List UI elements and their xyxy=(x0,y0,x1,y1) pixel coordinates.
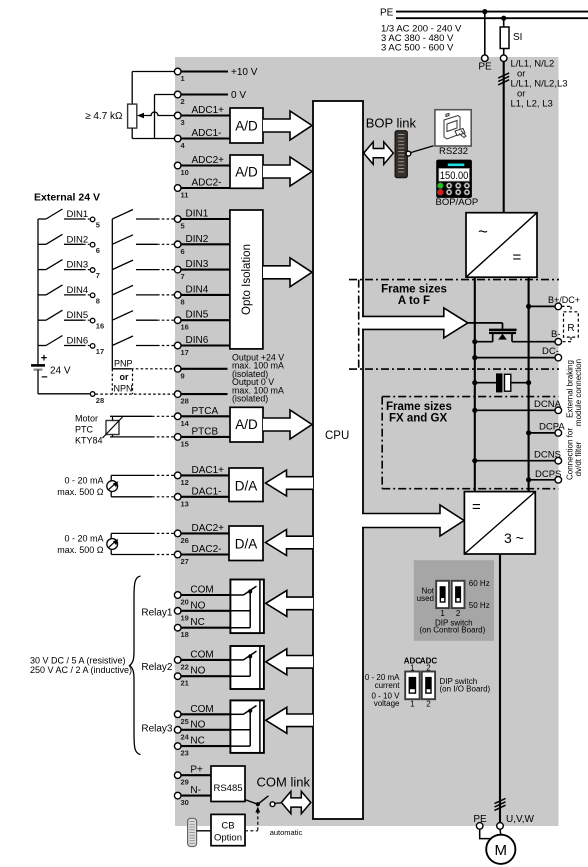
svg-text:7: 7 xyxy=(96,271,100,280)
svg-text:(on I/O Board): (on I/O Board) xyxy=(440,685,491,694)
svg-text:DAC1-: DAC1- xyxy=(192,486,222,497)
svg-text:3 ~: 3 ~ xyxy=(504,530,524,546)
svg-text:max. 500 Ω: max. 500 Ω xyxy=(57,545,104,555)
svg-text:0 V: 0 V xyxy=(231,90,246,101)
svg-text:30 V DC / 5 A (resistive): 30 V DC / 5 A (resistive) xyxy=(30,656,126,666)
svg-text:8: 8 xyxy=(96,296,100,305)
svg-text:28: 28 xyxy=(181,397,189,406)
svg-text:DAC1+: DAC1+ xyxy=(192,465,225,476)
svg-text:12: 12 xyxy=(181,478,189,487)
svg-text:PNP: PNP xyxy=(114,359,133,369)
svg-text:A/D: A/D xyxy=(235,119,258,134)
svg-text:NO: NO xyxy=(190,666,205,677)
svg-text:DIN5: DIN5 xyxy=(186,310,209,321)
svg-text:DCNS: DCNS xyxy=(534,449,561,460)
svg-text:0 - 20 mA: 0 - 20 mA xyxy=(64,476,103,486)
svg-text:PTCA: PTCA xyxy=(192,406,219,417)
svg-text:19: 19 xyxy=(181,613,189,622)
svg-text:NO: NO xyxy=(190,600,205,611)
svg-text:DCNA: DCNA xyxy=(534,399,562,410)
svg-text:Motor: Motor xyxy=(75,414,98,424)
svg-text:14: 14 xyxy=(181,419,190,428)
svg-text:(on Control Board): (on Control Board) xyxy=(419,626,485,635)
svg-text:17: 17 xyxy=(181,348,189,357)
svg-text:COM: COM xyxy=(190,649,213,660)
svg-text:29: 29 xyxy=(181,778,189,787)
svg-text:B+/DC+: B+/DC+ xyxy=(548,295,580,305)
svg-text:Relay2: Relay2 xyxy=(141,662,173,673)
svg-text:BOP/AOP: BOP/AOP xyxy=(436,197,479,208)
svg-text:A/D: A/D xyxy=(235,165,258,180)
svg-text:10: 10 xyxy=(181,168,189,177)
svg-text:RS485: RS485 xyxy=(213,783,242,794)
svg-text:PE: PE xyxy=(473,814,487,825)
svg-text:PE: PE xyxy=(478,62,492,73)
svg-text:5: 5 xyxy=(181,222,185,231)
svg-text:24: 24 xyxy=(181,732,190,741)
svg-text:ADC1-: ADC1- xyxy=(192,128,222,139)
svg-text:RS232: RS232 xyxy=(439,146,468,157)
svg-text:DIN2: DIN2 xyxy=(186,234,209,245)
svg-text:9: 9 xyxy=(181,371,185,380)
svg-text:Relay3: Relay3 xyxy=(141,724,173,735)
svg-text:External 24 V: External 24 V xyxy=(34,192,100,204)
svg-text:current: current xyxy=(375,681,401,690)
svg-text:Frame sizes: Frame sizes xyxy=(386,401,452,413)
svg-text:6: 6 xyxy=(181,247,185,256)
svg-text:15: 15 xyxy=(181,439,189,448)
svg-text:A/D: A/D xyxy=(235,417,258,432)
svg-text:2: 2 xyxy=(181,97,185,106)
svg-text:5: 5 xyxy=(96,221,100,230)
svg-text:50 Hz: 50 Hz xyxy=(469,601,490,610)
svg-text:1: 1 xyxy=(410,700,415,709)
svg-text:27: 27 xyxy=(181,557,189,566)
svg-text:used: used xyxy=(417,594,434,603)
svg-text:DIN1: DIN1 xyxy=(186,209,209,220)
svg-text:17: 17 xyxy=(96,347,104,356)
svg-text:DCPS: DCPS xyxy=(535,469,561,480)
svg-text:24 V: 24 V xyxy=(50,366,71,377)
svg-text:DAC2+: DAC2+ xyxy=(192,523,225,534)
svg-text:A to F: A to F xyxy=(398,295,430,307)
svg-text:M: M xyxy=(495,842,508,859)
svg-text:2: 2 xyxy=(426,700,431,709)
svg-text:≥ 4.7 kΩ: ≥ 4.7 kΩ xyxy=(85,111,123,122)
svg-text:BOP link: BOP link xyxy=(366,116,417,131)
svg-text:250 V AC / 2 A (inductive): 250 V AC / 2 A (inductive) xyxy=(30,665,132,675)
svg-text:30: 30 xyxy=(181,798,189,807)
svg-text:module connection: module connection xyxy=(574,359,583,426)
svg-text:0 - 20 mA: 0 - 20 mA xyxy=(64,533,103,543)
svg-text:Opto Isolation: Opto Isolation xyxy=(241,244,253,315)
svg-text:SI: SI xyxy=(513,32,522,43)
svg-text:22: 22 xyxy=(181,662,189,671)
svg-text:P+: P+ xyxy=(190,765,203,776)
svg-text:6: 6 xyxy=(96,246,100,255)
svg-text:ADC2+: ADC2+ xyxy=(192,155,225,166)
svg-text:max. 500 Ω: max. 500 Ω xyxy=(57,487,104,497)
svg-text:7: 7 xyxy=(181,272,185,281)
svg-text:FX and GX: FX and GX xyxy=(389,413,447,425)
svg-text:automatic: automatic xyxy=(270,828,303,837)
svg-text:150.00: 150.00 xyxy=(440,170,469,182)
svg-text:COM link: COM link xyxy=(257,775,311,790)
svg-text:+: + xyxy=(41,353,47,365)
svg-text:16: 16 xyxy=(181,323,189,332)
svg-text:3: 3 xyxy=(181,118,185,127)
svg-text:13: 13 xyxy=(181,499,189,508)
svg-text:3 AC 500 - 600 V: 3 AC 500 - 600 V xyxy=(381,43,454,54)
svg-text:DIN4: DIN4 xyxy=(186,284,209,295)
svg-text:26: 26 xyxy=(181,536,189,545)
svg-text:NO: NO xyxy=(190,719,205,730)
svg-text:B-: B- xyxy=(551,329,561,340)
svg-text:2: 2 xyxy=(456,609,461,618)
svg-text:16: 16 xyxy=(96,322,104,331)
svg-text:DC-: DC- xyxy=(542,346,559,357)
svg-text:11: 11 xyxy=(181,191,189,200)
svg-text:KTY84: KTY84 xyxy=(75,436,103,446)
svg-text:N-: N- xyxy=(190,785,201,796)
svg-text:ADC1+: ADC1+ xyxy=(192,105,225,116)
svg-text:CPU: CPU xyxy=(325,430,349,442)
svg-text:60 Hz: 60 Hz xyxy=(469,579,490,588)
svg-text:NC: NC xyxy=(190,736,204,747)
svg-text:DIN6: DIN6 xyxy=(186,335,209,346)
svg-text:(isolated): (isolated) xyxy=(232,394,268,404)
svg-text:20: 20 xyxy=(181,598,189,607)
svg-text:D/A: D/A xyxy=(235,537,258,552)
svg-text:U,V,W: U,V,W xyxy=(506,814,535,825)
svg-text:Relay1: Relay1 xyxy=(141,608,173,619)
svg-text:−: − xyxy=(41,372,47,384)
svg-text:or: or xyxy=(120,372,129,382)
svg-text:NC: NC xyxy=(190,617,204,628)
svg-text:=: = xyxy=(472,499,481,516)
svg-text:21: 21 xyxy=(181,679,189,688)
svg-text:PTC: PTC xyxy=(75,425,94,435)
svg-text:DIN3: DIN3 xyxy=(186,259,209,270)
svg-text:NPN: NPN xyxy=(114,384,133,394)
svg-text:R: R xyxy=(567,323,574,334)
svg-text:=: = xyxy=(513,249,522,266)
svg-text:28: 28 xyxy=(96,396,104,405)
svg-text:Frame sizes: Frame sizes xyxy=(381,284,447,296)
svg-text:voltage: voltage xyxy=(374,699,400,708)
svg-text:25: 25 xyxy=(181,717,189,726)
svg-text:DAC2-: DAC2- xyxy=(192,544,222,555)
svg-text:18: 18 xyxy=(181,630,189,639)
svg-text:PTCB: PTCB xyxy=(192,426,219,437)
svg-text:PE: PE xyxy=(380,7,394,18)
svg-text:ADC2-: ADC2- xyxy=(192,178,222,189)
svg-text:COM: COM xyxy=(190,585,213,596)
svg-text:1: 1 xyxy=(181,74,185,83)
svg-text:8: 8 xyxy=(181,297,185,306)
svg-text:CB: CB xyxy=(221,821,234,832)
svg-text:+10 V: +10 V xyxy=(231,67,258,78)
svg-text:dv/dt filter: dv/dt filter xyxy=(574,441,583,476)
svg-text:DCPA: DCPA xyxy=(539,422,565,433)
svg-text:D/A: D/A xyxy=(235,479,258,494)
svg-text:L1, L2, L3: L1, L2, L3 xyxy=(511,99,553,110)
svg-text:23: 23 xyxy=(181,749,189,758)
svg-text:Option: Option xyxy=(214,833,242,844)
svg-text:COM: COM xyxy=(190,704,213,715)
svg-text:1: 1 xyxy=(440,609,445,618)
svg-text:~: ~ xyxy=(478,222,488,241)
